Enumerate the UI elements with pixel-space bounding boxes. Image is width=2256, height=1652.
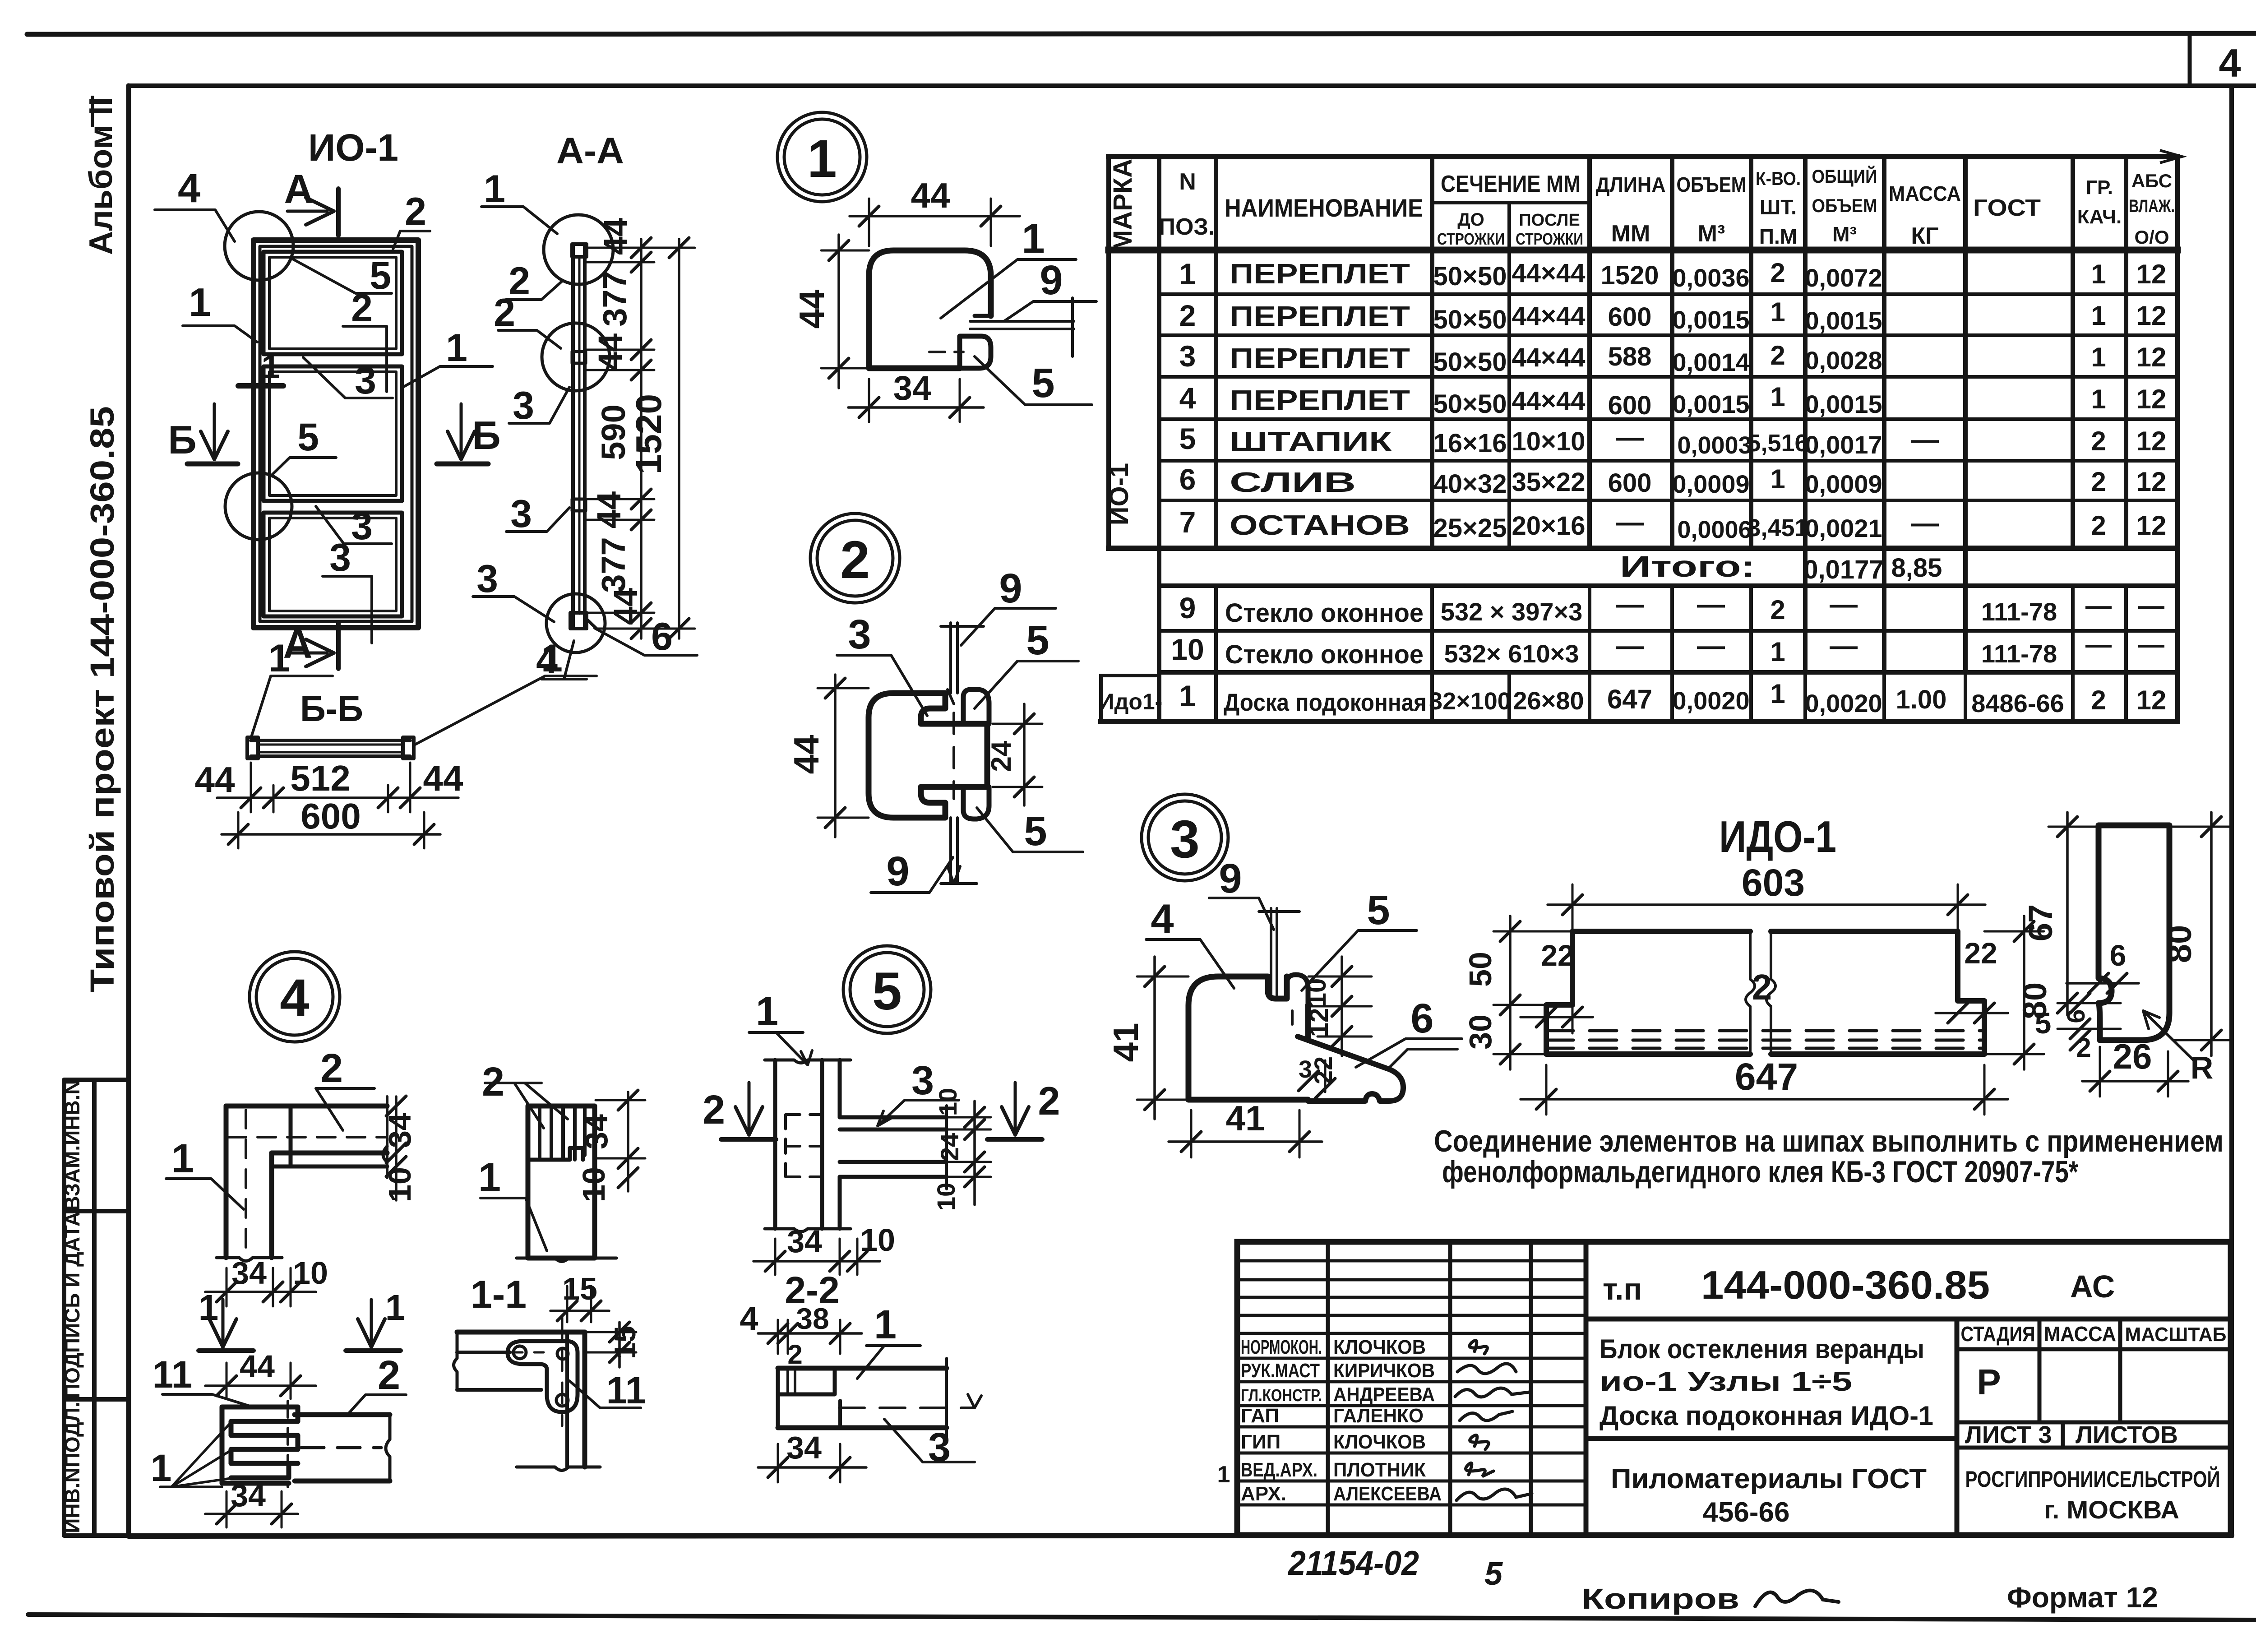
leader 11 to comb xyxy=(162,1394,253,1407)
vertical: гост/гр.кач xyxy=(2071,157,2075,548)
svg-text:1: 1 xyxy=(1770,464,1785,494)
pane 3 inner bead xyxy=(269,518,396,611)
svg-text:600: 600 xyxy=(1608,468,1652,498)
svg-text:44: 44 xyxy=(423,758,463,798)
svg-text:1: 1 xyxy=(385,1287,406,1328)
svg-text:ОБЩИЙ: ОБЩИЙ xyxy=(1812,165,1877,187)
detail 3 profile (нижний брусок рамы) xyxy=(1188,976,1308,1100)
screw centerlines xyxy=(469,1351,544,1354)
svg-text:80: 80 xyxy=(2160,925,2199,963)
svg-text:—: — xyxy=(2085,591,2112,620)
leader label 1 2-2 xyxy=(857,1346,920,1379)
left margin attribute box xyxy=(64,1080,129,1536)
svg-text:КГ: КГ xyxy=(1911,223,1938,249)
svg-text:Доска подоконная ИДО-1: Доска подоконная ИДО-1 xyxy=(1600,1401,1933,1431)
svg-text:2: 2 xyxy=(1770,340,1785,370)
svg-text:10: 10 xyxy=(934,1088,962,1116)
штапик bead of detail 3 xyxy=(1287,975,1308,1005)
detail 3 circle xyxy=(1142,794,1228,881)
svg-text:456-66: 456-66 xyxy=(1702,1497,1789,1528)
dim 26 bottom xyxy=(2082,1080,2188,1083)
svg-text:2: 2 xyxy=(840,530,870,590)
svg-text:СТРОЖКИ: СТРОЖКИ xyxy=(1516,230,1583,248)
vertical: наименование/сечение xyxy=(1430,157,1434,548)
dim 3/22 detail 3 xyxy=(1324,1060,1327,1092)
2-2 right end tick xyxy=(945,1358,948,1439)
svg-text:СТРОЖКИ: СТРОЖКИ xyxy=(1437,230,1505,248)
svg-text:1: 1 xyxy=(446,326,467,370)
direction marker 1 right xyxy=(370,1300,373,1342)
leader label 2 mid xyxy=(343,326,387,392)
svg-text:ОБЪЕМ: ОБЪЕМ xyxy=(1677,173,1747,196)
svg-text:1: 1 xyxy=(268,637,290,680)
svg-text:6: 6 xyxy=(1179,463,1196,496)
svg-text:1: 1 xyxy=(807,129,837,189)
копиров signature xyxy=(1755,1591,1839,1606)
leader label 4 d3 xyxy=(1146,939,1234,988)
svg-text:1: 1 xyxy=(541,637,563,680)
dim 50/30 left xyxy=(1509,916,1512,1069)
circle on section top xyxy=(544,215,613,284)
svg-text:ГОСТ: ГОСТ xyxy=(1973,195,2041,221)
svg-text:588: 588 xyxy=(1608,342,1652,371)
svg-text:44×44: 44×44 xyxy=(1512,386,1586,416)
dim 34/10 right of hatched piece xyxy=(627,1092,629,1191)
svg-text:5: 5 xyxy=(1367,887,1390,933)
svg-text:0,0009: 0,0009 xyxy=(1805,470,1882,498)
svg-text:1: 1 xyxy=(1770,679,1785,709)
leader label 2 hatched xyxy=(485,1083,568,1128)
dim 647 xyxy=(1521,1098,2008,1101)
svg-text:35×22: 35×22 xyxy=(1512,467,1586,497)
bar bottom break xyxy=(217,1258,282,1261)
svg-text:ПОЗ.: ПОЗ. xyxy=(1159,214,1215,240)
svg-text:15: 15 xyxy=(562,1271,597,1306)
Б-Б board bottom line xyxy=(251,754,410,758)
svg-text:12: 12 xyxy=(2136,384,2167,414)
svg-text:1: 1 xyxy=(484,167,505,211)
svg-text:11: 11 xyxy=(153,1353,193,1396)
dim 5/6/2 left small xyxy=(2057,1002,2121,1004)
svg-text:СТАДИЯ: СТАДИЯ xyxy=(1961,1322,2035,1346)
svg-text:0,0020: 0,0020 xyxy=(1672,686,1749,715)
svg-text:44: 44 xyxy=(240,1349,275,1384)
svg-text:590: 590 xyxy=(595,404,632,460)
svg-text:КЛОЧКОВ: КЛОЧКОВ xyxy=(1333,1431,1426,1453)
leader label 3 upper xyxy=(509,387,569,423)
leader label 1 detail1 xyxy=(941,259,1076,318)
node 1-1 top bar xyxy=(457,1330,585,1335)
table header bottom thick xyxy=(1109,247,2177,254)
svg-text:44: 44 xyxy=(592,333,629,370)
svg-text:12: 12 xyxy=(2136,426,2167,456)
svg-text:50: 50 xyxy=(1463,952,1498,987)
svg-text:38: 38 xyxy=(796,1302,829,1335)
svg-text:9: 9 xyxy=(1040,257,1063,303)
svg-text:ГЛ.КОНСТР.: ГЛ.КОНСТР. xyxy=(1241,1386,1322,1405)
mating wide bar right xyxy=(295,1412,390,1417)
svg-text:12: 12 xyxy=(2136,259,2167,289)
svg-text:—: — xyxy=(2138,630,2164,659)
svg-text:ИНВ.NПОДЛ.: ИНВ.NПОДЛ. xyxy=(60,1402,84,1533)
pane 2 inner bead xyxy=(269,372,396,495)
leader for label 1 left xyxy=(183,326,257,342)
svg-text:512: 512 xyxy=(290,758,350,798)
svg-text:6: 6 xyxy=(651,615,673,658)
svg-text:АНДРЕЕВА: АНДРЕЕВА xyxy=(1333,1384,1435,1406)
svg-text:1: 1 xyxy=(2091,384,2106,414)
svg-text:600: 600 xyxy=(1608,391,1652,420)
svg-text:6: 6 xyxy=(2110,939,2127,972)
svg-text:15: 15 xyxy=(608,1326,642,1359)
dim 22 right xyxy=(1936,1012,2008,1014)
corner joint plan: horizontal bar xyxy=(226,1104,387,1109)
leader label 5 detail1 xyxy=(975,356,1092,405)
svg-text:10: 10 xyxy=(293,1255,328,1291)
svg-text:30: 30 xyxy=(1463,1014,1498,1050)
extension lines to dim line xyxy=(587,247,695,249)
лист row bottom xyxy=(1957,1446,2231,1450)
dim 80 right line xyxy=(2210,812,2213,1056)
svg-text:ДЛИНА: ДЛИНА xyxy=(1596,173,1666,196)
detail 4 circle xyxy=(250,952,340,1042)
svg-text:3: 3 xyxy=(355,359,376,402)
leader label 3 bottom xyxy=(473,597,554,622)
corner joint dashed lines xyxy=(228,1136,386,1138)
row lines xyxy=(1159,292,2177,296)
svg-text:КАЧ.: КАЧ. xyxy=(2077,206,2122,228)
comb dashed vertical xyxy=(287,1401,289,1487)
svg-text:НОРМОКОН.: НОРМОКОН. xyxy=(1241,1336,1322,1358)
signature table verticals xyxy=(1326,1242,1330,1535)
svg-text:377: 377 xyxy=(596,271,633,326)
svg-text:32×100: 32×100 xyxy=(1429,688,1511,715)
leader label 1 section top xyxy=(481,207,557,234)
svg-text:12: 12 xyxy=(2136,510,2167,541)
svg-text:—: — xyxy=(1616,630,1644,662)
svg-text:2: 2 xyxy=(1038,1078,1060,1123)
detail 5 circle xyxy=(843,946,931,1033)
стадия block left edge xyxy=(1955,1319,1960,1535)
table bottom xyxy=(1101,719,2177,724)
svg-text:ПЕРЕПЛЕТ: ПЕРЕПЛЕТ xyxy=(1230,343,1410,374)
leader for label 3 mid xyxy=(316,506,392,544)
dashed line of detail 3 xyxy=(1291,1011,1294,1029)
Б section marker left xyxy=(213,404,216,456)
svg-text:ПЕРЕПЛЕТ: ПЕРЕПЛЕТ xyxy=(1230,301,1410,332)
svg-text:5: 5 xyxy=(1484,1556,1503,1592)
svg-text:41: 41 xyxy=(1106,1023,1146,1062)
bottom rail square with слив xyxy=(570,613,587,629)
svg-text:НАИМЕНОВАНИЕ: НАИМЕНОВАНИЕ xyxy=(1225,194,1423,222)
svg-text:R: R xyxy=(2191,1050,2214,1085)
итого row top thick xyxy=(1109,546,2177,551)
dim 15 right of node 1-1 xyxy=(618,1322,621,1367)
2-2 bar bottom line xyxy=(778,1425,947,1430)
signatures squiggles xyxy=(1455,1341,1532,1501)
detail 1 profile (переплет section) xyxy=(869,250,991,368)
hidden tenon dashed xyxy=(786,1115,822,1177)
leader label 9 detail1 xyxy=(1004,301,1096,321)
leader label 3 2-2 xyxy=(884,1419,975,1462)
svg-text:ПЕРЕПЛЕТ: ПЕРЕПЛЕТ xyxy=(1230,385,1410,416)
T-joint horizontal element xyxy=(840,1115,947,1120)
svg-text:2: 2 xyxy=(378,1353,400,1398)
vertical: к-во/общий xyxy=(1803,157,1808,672)
dim 80 right of board xyxy=(2023,916,2025,1069)
svg-text:26×80: 26×80 xyxy=(1513,686,1584,715)
svg-text:Доска подоконная: Доска подоконная xyxy=(1224,689,1427,716)
svg-text:ДО: ДО xyxy=(1457,210,1484,230)
svg-text:Соединение элементов на шипах: Соединение элементов на шипах выполнить … xyxy=(1434,1124,2224,1158)
dim 34/10 right of corner xyxy=(395,1097,398,1200)
svg-text:Б: Б xyxy=(168,417,196,462)
dim 38 above 2-2 xyxy=(758,1332,862,1335)
svg-text:10: 10 xyxy=(932,1183,960,1211)
svg-text:25×25: 25×25 xyxy=(1433,514,1507,543)
section mark tick on left frame xyxy=(238,383,283,389)
svg-text:ОБЪЕМ: ОБЪЕМ xyxy=(1812,195,1877,216)
left break of node 1-1 xyxy=(454,1332,458,1390)
svg-text:21154-02: 21154-02 xyxy=(1287,1544,1419,1583)
svg-text:1: 1 xyxy=(1022,216,1045,262)
corner joint vertical bar xyxy=(224,1106,229,1258)
svg-text:МАРКА: МАРКА xyxy=(1108,159,1137,252)
dim 34 bottom of comb xyxy=(205,1513,298,1515)
dim 10/12 right detail 3 xyxy=(1341,957,1343,1056)
direction marker 2 left xyxy=(748,1083,751,1130)
svg-text:1: 1 xyxy=(2091,259,2106,289)
svg-text:ГАП: ГАП xyxy=(1241,1405,1279,1427)
arrow at table top right xyxy=(2161,151,2182,162)
svg-text:2: 2 xyxy=(405,190,426,233)
dim line 44-512-44 xyxy=(217,796,458,799)
svg-text:2: 2 xyxy=(2091,426,2106,456)
svg-text:7: 7 xyxy=(1179,505,1196,539)
svg-text:1: 1 xyxy=(756,989,778,1034)
svg-text:3: 3 xyxy=(510,492,532,536)
svg-text:10: 10 xyxy=(382,1167,417,1202)
hatched vertical profile xyxy=(528,1106,595,1258)
svg-text:44×44: 44×44 xyxy=(1512,301,1586,331)
right edge to слив xyxy=(1305,1005,1311,1037)
svg-text:22: 22 xyxy=(1309,1056,1337,1084)
svg-text:50×50: 50×50 xyxy=(1433,305,1507,334)
svg-text:0,0014: 0,0014 xyxy=(1672,348,1749,376)
T-joint vertical bar xyxy=(773,1060,777,1229)
svg-text:1: 1 xyxy=(151,1447,172,1489)
leader label 3 d2 xyxy=(837,655,927,716)
direction marker 2 right xyxy=(1014,1083,1017,1130)
svg-text:2: 2 xyxy=(1770,595,1785,625)
svg-text:10: 10 xyxy=(576,1167,611,1202)
svg-text:67: 67 xyxy=(2022,904,2059,941)
drawing frame right edge xyxy=(2229,86,2234,1536)
svg-text:3: 3 xyxy=(476,557,498,601)
svg-text:Б-Б: Б-Б xyxy=(300,689,363,729)
bottom break of hatched piece xyxy=(517,1258,616,1262)
page top border line xyxy=(27,33,2256,34)
svg-text:12: 12 xyxy=(2136,301,2167,331)
leader label 11 node 1-1 xyxy=(569,1381,641,1408)
dim 34/10 bottom of corner xyxy=(205,1291,316,1293)
А section marker top: arrow xyxy=(287,210,327,213)
svg-text:647: 647 xyxy=(1735,1055,1798,1098)
svg-text:А-А: А-А xyxy=(556,130,624,171)
circle on section middle xyxy=(542,323,610,391)
svg-text:1520: 1520 xyxy=(629,394,669,474)
svg-text:1: 1 xyxy=(199,1287,219,1328)
svg-text:1: 1 xyxy=(1217,1462,1230,1488)
leader for label 3 bottom xyxy=(323,576,372,643)
dim 44 top detail 1 xyxy=(850,215,1020,217)
leaders from label 1 to fingers xyxy=(160,1422,231,1487)
svg-text:20×16: 20×16 xyxy=(1512,511,1586,541)
svg-text:0,0015: 0,0015 xyxy=(1805,390,1882,418)
detail circle on left mullion xyxy=(225,473,292,540)
leader 1 right of Б-Б xyxy=(413,676,596,745)
svg-text:22: 22 xyxy=(1964,936,1997,970)
svg-text:РОСГИПРОНИИСЕЛЬСТРОЙ: РОСГИПРОНИИСЕЛЬСТРОЙ xyxy=(1965,1466,2220,1492)
leader label 5 top d2 xyxy=(975,661,1078,708)
svg-text:Итого:: Итого: xyxy=(1620,550,1755,583)
svg-text:3: 3 xyxy=(1170,810,1200,869)
svg-text:ШТ.: ШТ. xyxy=(1760,195,1797,219)
svg-text:0,0015: 0,0015 xyxy=(1672,390,1749,418)
стадия header bottom xyxy=(1957,1347,2231,1351)
svg-text:—: — xyxy=(1616,422,1644,453)
svg-text:34: 34 xyxy=(787,1224,822,1259)
page bottom border line xyxy=(28,1615,2256,1620)
vertical bar top break xyxy=(765,1060,851,1063)
svg-text:—: — xyxy=(1911,508,1939,539)
glass center line xyxy=(578,257,581,614)
svg-text:8,85: 8,85 xyxy=(1891,553,1942,583)
overline over II of Альбом xyxy=(91,96,94,127)
vertical: объем/к-во xyxy=(1749,157,1753,548)
svg-text:Б: Б xyxy=(472,413,500,458)
svg-text:АС: АС xyxy=(2070,1269,2115,1304)
leader for label 4 xyxy=(155,210,235,241)
svg-text:12: 12 xyxy=(2136,342,2167,372)
leader label 6 d3 xyxy=(1356,1039,1462,1067)
svg-text:2: 2 xyxy=(494,291,515,334)
svg-text:2: 2 xyxy=(1179,299,1196,332)
vertical: гр.кач/абс xyxy=(2124,157,2128,548)
dim 67 line xyxy=(2066,812,2069,1015)
dim line 1 of section (44/377/44/590/44/377/44) xyxy=(640,239,643,639)
идо row top left extension xyxy=(1101,674,1159,677)
svg-text:3: 3 xyxy=(329,536,351,579)
svg-text:5: 5 xyxy=(297,416,319,459)
svg-text:34: 34 xyxy=(579,1114,614,1149)
svg-text:34: 34 xyxy=(231,1478,266,1513)
svg-text:Р: Р xyxy=(1977,1362,2001,1402)
signature rows texts xyxy=(1241,1336,1442,1505)
svg-text:8486-66: 8486-66 xyxy=(1971,689,2064,717)
node 1-1 corner plate xyxy=(508,1341,578,1412)
detail 1 circle xyxy=(777,112,867,202)
laminate dashed lines xyxy=(1546,1029,1984,1032)
svg-text:ио-1 Узлы 1÷5: ио-1 Узлы 1÷5 xyxy=(1600,1366,1852,1397)
svg-text:2: 2 xyxy=(482,1060,504,1105)
vertical: до/после xyxy=(1507,203,1511,548)
svg-text:40×32: 40×32 xyxy=(1433,469,1507,499)
hatch step xyxy=(528,1148,583,1160)
svg-text:ВЗАМ.ИНВ.N: ВЗАМ.ИНВ.N xyxy=(60,1079,84,1211)
svg-text:10×10: 10×10 xyxy=(1512,427,1586,456)
svg-text:6: 6 xyxy=(2062,1009,2090,1023)
vertical: длина/объем xyxy=(1670,157,1674,548)
leader for label 5 lower-left xyxy=(271,458,336,476)
svg-text:5: 5 xyxy=(1026,617,1049,663)
vertical: общий/масса xyxy=(1882,157,1886,672)
svg-text:44: 44 xyxy=(597,218,634,255)
leader label 4 bottom xyxy=(541,641,587,679)
2-2 dashed centerline xyxy=(839,1407,975,1409)
leader label 1 hatched xyxy=(481,1198,547,1251)
window outer frame inner line xyxy=(260,246,412,621)
svg-text:600: 600 xyxy=(300,796,361,836)
svg-text:Блок остекления веранды: Блок остекления веранды xyxy=(1600,1334,1924,1364)
svg-text:3: 3 xyxy=(928,1425,951,1470)
signature table empty top rows xyxy=(1237,1259,1586,1263)
svg-text:2: 2 xyxy=(2091,685,2106,715)
лист row top xyxy=(1957,1421,2231,1425)
svg-text:—: — xyxy=(1830,589,1858,620)
leader label 5 d3 xyxy=(1302,930,1417,990)
svg-text:г. МОСКВА: г. МОСКВА xyxy=(2044,1495,2179,1524)
svg-text:1: 1 xyxy=(1770,382,1785,412)
leader for label 1 right xyxy=(403,366,493,387)
vertical: марка/N xyxy=(1157,157,1161,722)
svg-text:КЛОЧКОВ: КЛОЧКОВ xyxy=(1333,1336,1426,1358)
dim 22 left xyxy=(1521,1016,1593,1018)
svg-text:0,0015: 0,0015 xyxy=(1805,306,1882,335)
dim 24 right detail 2 xyxy=(1023,704,1026,805)
circle on section bottom xyxy=(546,594,605,652)
svg-text:3: 3 xyxy=(1179,339,1196,373)
svg-text:44: 44 xyxy=(792,290,832,329)
vertical: масса/гост xyxy=(1963,157,1968,672)
svg-text:фенолформальдегидного клея КБ-: фенолформальдегидного клея КБ-3 ГОСТ 209… xyxy=(1442,1155,2078,1189)
svg-text:П.М: П.М xyxy=(1759,225,1797,248)
dim 41 bottom detail 3 xyxy=(1169,1140,1322,1143)
dim 44 left detail 2 xyxy=(834,675,837,837)
svg-text:377: 377 xyxy=(595,537,632,592)
dim 44 of tenon comb xyxy=(205,1384,316,1387)
svg-text:24: 24 xyxy=(935,1133,964,1161)
svg-text:44×44: 44×44 xyxy=(1512,259,1586,288)
mullion detail upper xyxy=(572,352,586,363)
svg-text:9: 9 xyxy=(999,565,1022,611)
svg-text:9: 9 xyxy=(1179,591,1196,625)
Б section marker right xyxy=(460,404,463,456)
leader label 2 upper xyxy=(506,281,563,300)
svg-text:44: 44 xyxy=(911,176,950,215)
svg-text:50×50: 50×50 xyxy=(1433,347,1507,377)
leader for label 5 pane1 xyxy=(291,258,392,293)
svg-text:ВЕД.АРХ.: ВЕД.АРХ. xyxy=(1241,1459,1318,1481)
glass top of detail 2 xyxy=(949,623,952,693)
svg-text:2: 2 xyxy=(320,1046,343,1091)
svg-text:1: 1 xyxy=(189,280,211,324)
right part header divider xyxy=(1586,1317,2231,1322)
svg-text:0,0006: 0,0006 xyxy=(1677,516,1752,543)
svg-text:10: 10 xyxy=(1171,633,1204,666)
svg-text:Формат 12: Формат 12 xyxy=(2007,1581,2158,1614)
стадия col dividers xyxy=(2038,1319,2042,1422)
